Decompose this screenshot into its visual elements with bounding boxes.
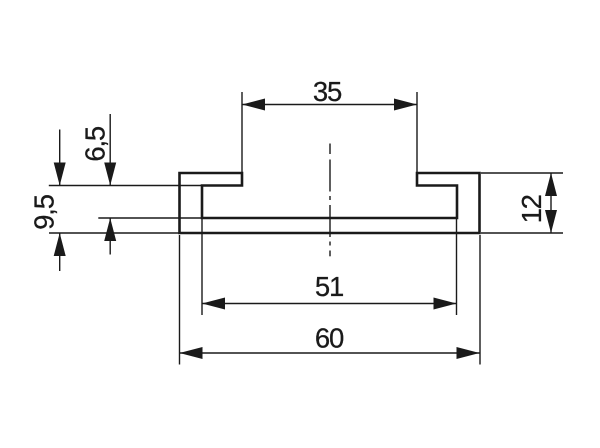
extension line 35 right	[416, 92, 418, 173]
dimension line 35	[242, 104, 417, 106]
dimension line 6,5 lower segment	[109, 218, 111, 255]
centerline (vertical dash-dot)	[329, 144, 331, 257]
extension line 60 left	[179, 235, 181, 365]
extension line step level (y=185.5)	[49, 185, 202, 187]
dimension line 51	[202, 303, 457, 305]
extension line 60 right	[479, 235, 481, 365]
dimension line 9,5 lower segment	[59, 233, 61, 271]
extension line 51 left	[201, 218, 203, 315]
svg-text:51: 51	[315, 271, 343, 302]
extension line 12 bottom	[481, 232, 563, 234]
svg-text:60: 60	[315, 322, 344, 353]
arrow 51 left	[202, 298, 225, 310]
extension line outer bottom level (y=233)	[49, 232, 180, 234]
profile outline (channel cross-section)	[180, 173, 480, 233]
extension line 12 top	[481, 172, 563, 174]
arrow 60 right	[457, 347, 480, 359]
arrow 60 left	[180, 347, 203, 359]
arrow 6,5 down	[104, 163, 116, 186]
extension line inner bottom level (y=218)	[98, 217, 202, 219]
svg-text:35: 35	[313, 76, 342, 107]
arrow 12 up	[545, 173, 557, 196]
svg-text:12: 12	[516, 195, 547, 223]
dimension line 60	[180, 352, 480, 354]
dimension line 12	[550, 173, 552, 233]
arrow 35 right	[394, 99, 417, 111]
svg-text:9,5: 9,5	[29, 194, 60, 230]
arrow 51 right	[434, 298, 457, 310]
extension line 35 left	[241, 92, 243, 173]
arrow 6,5 up	[104, 218, 116, 241]
arrow 9,5 down	[54, 163, 66, 186]
arrow 35 left	[242, 99, 265, 111]
arrow 12 down	[545, 210, 557, 233]
dimension line 6,5 upper segment	[109, 114, 111, 186]
dimension line 9,5 upper segment	[59, 130, 61, 186]
extension line 51 right	[456, 218, 458, 315]
svg-text:6,5: 6,5	[80, 126, 111, 162]
arrow 9,5 up	[54, 233, 66, 256]
